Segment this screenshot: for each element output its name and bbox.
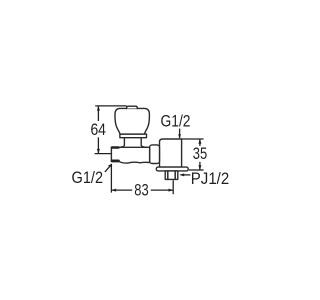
dim 64 line — [97, 106, 99, 154]
arrow leader PJ1/2 — [179, 173, 184, 176]
handle cap — [127, 106, 138, 108]
body barrel — [111, 147, 149, 163]
dim 83 left extension line — [110, 164, 112, 193]
handle skirt ring — [120, 134, 147, 138]
union nut — [150, 145, 160, 164]
outlet flange — [156, 167, 188, 171]
outlet nut PJ1/2 — [165, 171, 178, 180]
arrow 35 up — [198, 139, 201, 144]
svg-text:64: 64 — [90, 121, 106, 139]
dim 83 right extension line — [172, 180, 174, 194]
dim 35 line — [199, 139, 201, 170]
dim 83 line — [111, 189, 173, 191]
svg-text:G1/2: G1/2 — [161, 113, 191, 131]
arrow 83 left — [111, 189, 116, 192]
arrow 64 up — [97, 106, 100, 111]
svg-text:83: 83 — [134, 182, 148, 200]
inlet top tab — [112, 146, 118, 149]
handle dome — [115, 108, 149, 134]
bonnet boss — [119, 138, 147, 148]
arrow 35 down — [198, 165, 201, 170]
arrow 83 right — [169, 189, 174, 192]
svg-text:35: 35 — [193, 145, 207, 163]
leader PJ1/2 — [181, 174, 191, 176]
inlet bottom tab — [112, 159, 118, 162]
leader G1/2 top — [179, 129, 181, 139]
dim 64 top extension line — [95, 105, 126, 107]
right body — [160, 139, 182, 167]
arrow leader G1/2 left — [108, 164, 112, 168]
dim 64 bottom extension line — [95, 153, 111, 155]
dim 35 bottom extension line — [189, 169, 204, 171]
svg-text:PJ1/2: PJ1/2 — [191, 170, 229, 188]
arrow leader G1/2 top — [178, 134, 181, 139]
svg-text:G1/2: G1/2 — [72, 169, 104, 187]
leader G1/2 left — [105, 165, 111, 172]
dim 35 top extension line — [182, 138, 204, 140]
arrow 64 down — [97, 149, 100, 154]
